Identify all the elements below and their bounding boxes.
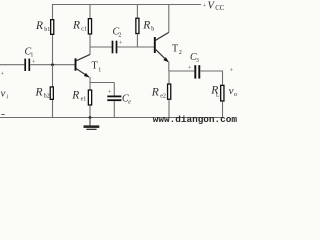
wire: input line to C1	[0, 64, 24, 66]
label RL	[210, 84, 220, 98]
label Re1	[71, 89, 86, 102]
wire: emitter node to Ce	[90, 82, 114, 84]
svg-text:b2: b2	[44, 94, 50, 100]
resistor RL	[221, 85, 224, 117]
svg-text:+: +	[230, 67, 234, 74]
capacitor C2	[113, 41, 117, 54]
label - (input polarity)	[1, 113, 5, 116]
wire: collector node to C2	[90, 46, 112, 48]
label +VCC	[203, 1, 225, 12]
label T1	[92, 61, 102, 74]
svg-text:R: R	[151, 86, 159, 98]
svg-text:+: +	[188, 64, 192, 71]
resistor Re2	[168, 71, 171, 118]
wire: bottom ground rail	[0, 117, 223, 119]
label Rb	[142, 19, 154, 32]
svg-text:c1: c1	[81, 26, 87, 32]
svg-text:v: v	[229, 85, 234, 97]
label Rc1	[72, 19, 87, 32]
wire: C1 to T1 base	[30, 64, 74, 66]
svg-text:CC: CC	[215, 5, 225, 12]
label vo	[229, 85, 237, 98]
label C1	[25, 47, 34, 59]
svg-text:1: 1	[98, 68, 101, 74]
node: base divider junction	[51, 63, 54, 66]
svg-text:R: R	[35, 86, 43, 98]
resistor Rb1	[51, 20, 54, 64]
transistor T2	[155, 5, 169, 72]
svg-text:T: T	[92, 61, 98, 72]
capacitor C3	[195, 65, 199, 78]
label C2	[113, 27, 122, 39]
svg-text:o: o	[234, 92, 237, 98]
wire: T2 emitter node to C3	[169, 70, 195, 72]
svg-text:b: b	[151, 27, 154, 33]
svg-text:R: R	[142, 19, 150, 31]
svg-text:3: 3	[196, 58, 199, 64]
svg-text:2: 2	[118, 33, 121, 39]
resistor Rc1	[88, 5, 91, 55]
svg-text:+: +	[108, 89, 112, 96]
svg-text:www.diangon.com: www.diangon.com	[153, 114, 238, 125]
svg-text:e2: e2	[160, 94, 166, 100]
svg-text:e1: e1	[81, 97, 87, 103]
svg-text:+: +	[1, 71, 5, 78]
wire: C3 to RL	[200, 71, 222, 85]
resistor Rb	[136, 5, 139, 48]
label Rb2	[35, 86, 50, 99]
label T2	[172, 44, 182, 56]
wire: top supply rail	[53, 5, 202, 20]
svg-text:T: T	[172, 44, 178, 55]
svg-text:R: R	[71, 89, 79, 101]
node: ground junction	[89, 116, 92, 119]
resistor Re1	[88, 83, 91, 118]
svg-text:L: L	[216, 92, 220, 98]
svg-text:R: R	[72, 19, 80, 31]
label Re2	[151, 86, 166, 99]
svg-text:+: +	[119, 39, 123, 46]
capacitor Ce	[107, 96, 121, 117]
svg-text:R: R	[35, 20, 43, 32]
capacitor C1	[25, 59, 29, 71]
label Rb1	[35, 20, 50, 33]
resistor Rb2	[50, 65, 53, 118]
svg-text:+: +	[203, 3, 207, 10]
svg-text:2: 2	[179, 50, 182, 56]
transistor T1	[76, 54, 91, 82]
label vi	[1, 87, 9, 100]
label C3	[190, 52, 199, 64]
svg-text:e: e	[128, 100, 131, 106]
label Ce	[122, 94, 131, 106]
wire: C2 to T2 base	[117, 46, 154, 48]
svg-text:b1: b1	[44, 27, 50, 33]
svg-text:v: v	[1, 87, 6, 99]
ground	[84, 118, 100, 131]
